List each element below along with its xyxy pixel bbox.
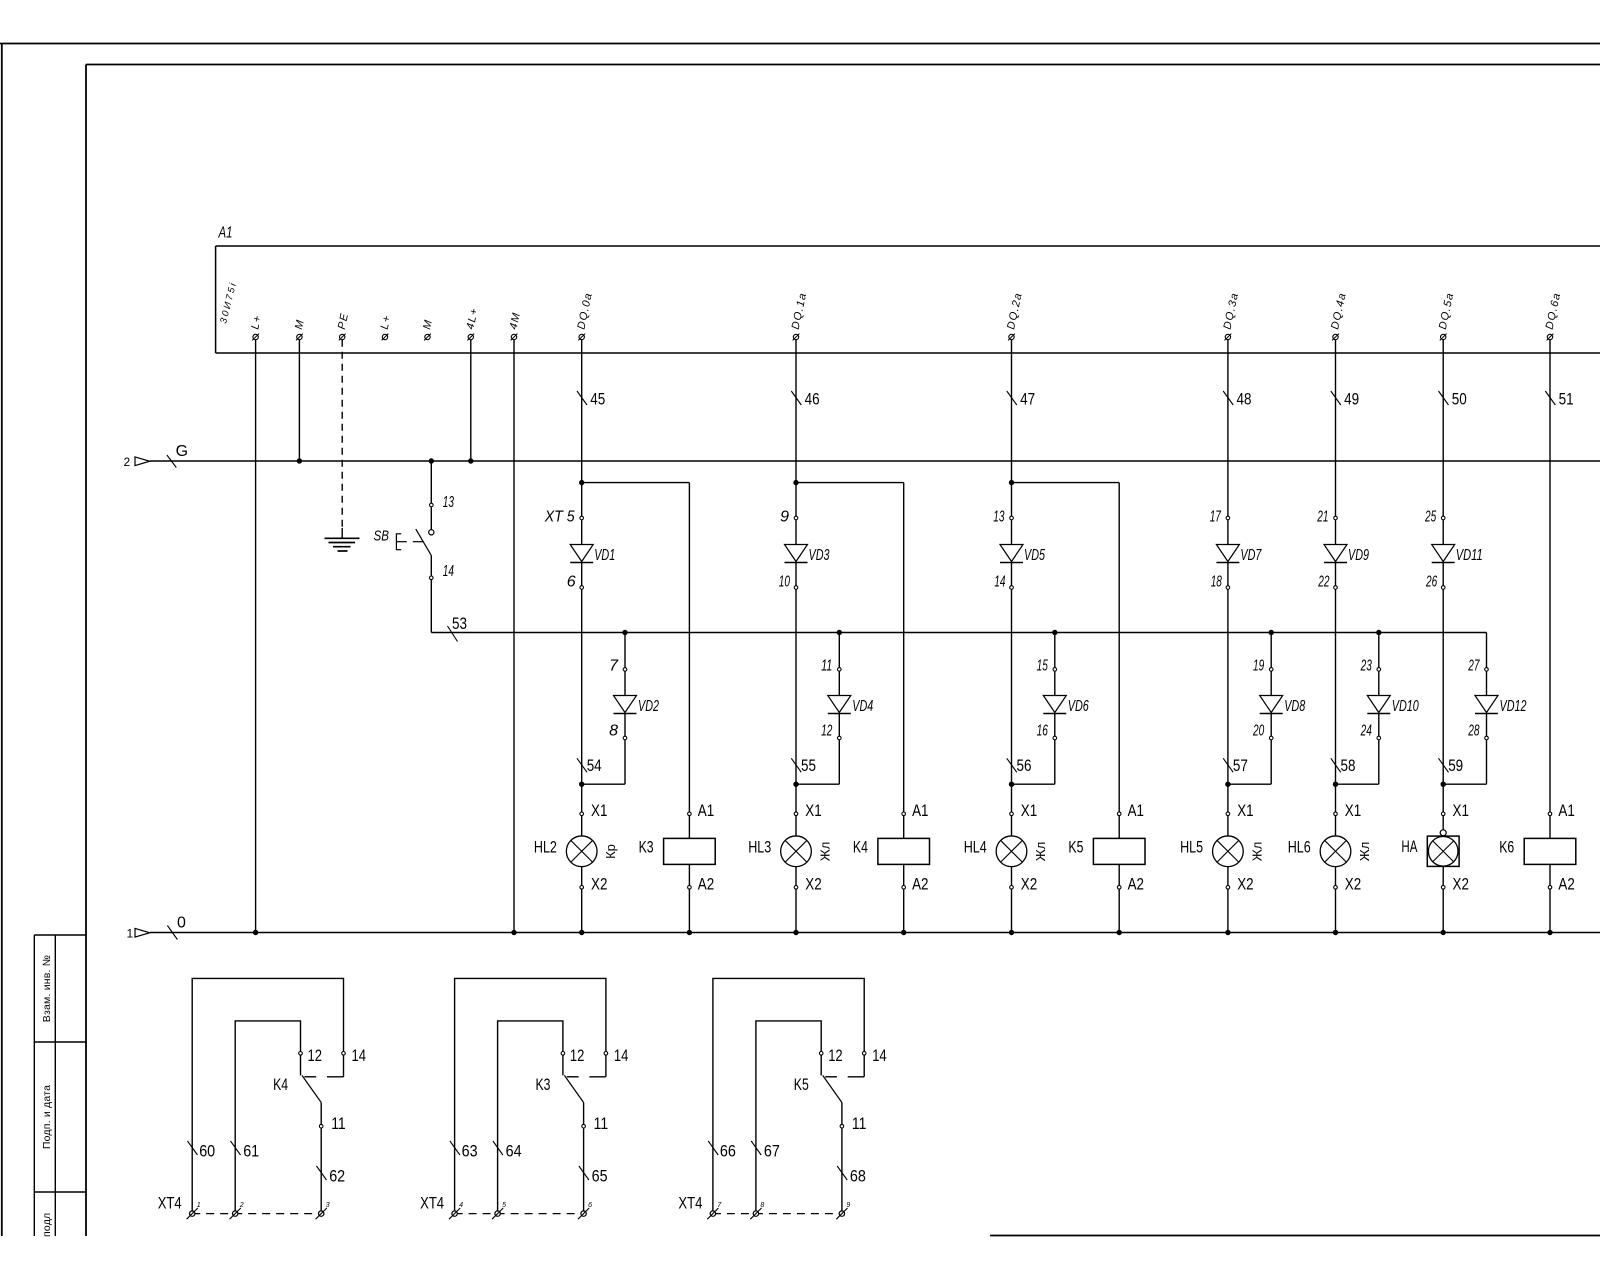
lamp color label [1357,842,1372,862]
svg-text:Жл: Жл [1033,842,1048,862]
svg-text:21: 21 [1317,509,1329,526]
wire 4L+ to bus G [468,340,473,464]
SB pin 14 [443,563,454,580]
svg-text:Жл: Жл [818,842,833,862]
svg-text:12: 12 [828,1046,843,1065]
stamp label Vzam inv [41,955,53,1022]
SB pin 13 [443,494,454,511]
contact pin 12 K5 [819,1046,842,1065]
svg-text:2: 2 [239,1202,244,1209]
svg-text:65: 65 [592,1167,608,1186]
wire number 61 [231,1141,260,1161]
svg-text:66: 66 [720,1142,736,1161]
wire M to bus G [297,340,302,464]
wire number 64 [493,1141,522,1161]
svg-text:подл: подл [41,1213,53,1237]
terminal DQ.6a x=1550.0 [1544,291,1564,340]
svg-text:XT4: XT4 [678,1193,702,1212]
wire DQ output drop ch4 [1227,340,1229,517]
XT4 terminal 5 [492,1202,506,1219]
SB label [374,528,390,545]
pin A2 K3 [688,875,715,894]
wire lamp to bus 0 ch4 [1225,889,1230,935]
wire 57 (diode to lamp) [1225,589,1230,812]
pin 22 [1318,574,1338,591]
terminal DQ.4a x=1335.5 [1329,291,1349,340]
wire 55 (diode to lamp) [793,589,798,812]
K6 label [1499,838,1514,857]
terminal strip XT4 dashed link [455,1213,584,1215]
wire lamp to bus 0 ch5 [1333,889,1338,935]
svg-text:45: 45 [590,390,605,409]
svg-text:A1: A1 [1558,801,1574,820]
A1 module type (rotated) [218,280,239,325]
svg-text:VD6: VD6 [1068,698,1089,715]
XT4 terminal 1 [187,1202,201,1219]
pin 18 [1211,574,1230,591]
svg-text:18: 18 [1211,574,1222,591]
bus 0 wire number [167,914,186,939]
module A1 box [216,246,1600,353]
relay coil K6 [1524,816,1576,886]
wire lamp to bus 0 ch3 [1009,889,1014,935]
svg-text:6: 6 [567,574,576,591]
diode VD7 [1216,520,1262,586]
HL3 label [748,838,771,857]
svg-text:X1: X1 [1021,801,1037,820]
bus G [135,461,1600,928]
svg-text:Кр: Кр [603,844,618,859]
svg-text:X1: X1 [1453,801,1469,820]
svg-text:15: 15 [1037,658,1048,675]
svg-text:A1: A1 [912,801,928,820]
wire DQ output drop ch1 [579,340,584,517]
svg-text:X2: X2 [1345,875,1361,894]
bus G off-sheet arrow [124,455,150,469]
terminal strip XT4 dashed link [713,1213,842,1215]
wire 68 common [841,1128,843,1211]
terminal DQ.3a x=1227.9 [1222,291,1242,340]
wire coil to bus 0 K3 [687,889,692,935]
pin A1 K3 [688,801,715,820]
svg-text:16: 16 [1037,723,1048,740]
bus G wire number [167,443,188,468]
wire number 68 [837,1166,866,1186]
XT4 terminal 3 [316,1202,330,1219]
svg-text:51: 51 [1559,390,1574,409]
lamp HL2 [566,816,597,886]
contact pin 11 K3 [582,1114,608,1133]
svg-text:X2: X2 [591,875,607,894]
svg-text:0: 0 [177,914,186,931]
svg-text:X2: X2 [1021,875,1037,894]
wire number 45 [577,390,605,409]
sounder HA [1427,816,1459,886]
svg-text:53: 53 [452,614,467,633]
terminal DQ.2a x=1011.5 [1005,291,1025,340]
svg-text:VD7: VD7 [1240,547,1262,564]
svg-text:67: 67 [764,1142,780,1161]
svg-text:50: 50 [1452,390,1467,409]
svg-text:HA: HA [1401,837,1417,856]
wire number 58 [1331,756,1356,775]
svg-text:A1: A1 [218,225,233,242]
lamp HL4 [996,816,1027,886]
pin X1 ch5 [1334,801,1362,820]
wire PE (dashed) [341,340,343,539]
pin A1 K5 [1117,801,1144,820]
wire DQ.6a to K6 [1549,340,1551,812]
svg-text:14: 14 [994,574,1005,591]
pin X1 ch4 [1226,801,1254,820]
changeover contact K3 [563,1055,606,1124]
svg-text:20: 20 [1252,723,1264,740]
svg-text:56: 56 [1017,756,1032,775]
wire number 62 [317,1166,346,1186]
wire number 54 [577,756,602,775]
svg-text:12: 12 [821,723,832,740]
pin X2 ch4 [1226,875,1254,894]
svg-text:11: 11 [821,658,832,675]
svg-text:A2: A2 [1558,875,1574,894]
lamp color label [603,844,618,859]
svg-text:A2: A2 [698,875,714,894]
wire number 46 [791,390,819,409]
K5 label [794,1075,809,1094]
svg-text:XT4: XT4 [420,1193,444,1212]
svg-text:VD3: VD3 [809,547,830,564]
svg-text:49: 49 [1344,390,1359,409]
svg-text:5: 5 [502,1202,506,1209]
wire branch to relay coil ch2 [796,483,904,812]
wire 65 common [583,1128,585,1211]
wire number 59 [1439,756,1464,775]
svg-text:61: 61 [243,1142,259,1161]
wire 4M to bus 0 [511,340,516,936]
svg-text:SB: SB [374,528,390,545]
wire number 66 [708,1141,736,1161]
pin A2 K6 [1548,875,1575,894]
wire lamp to bus 0 ch6 [1441,889,1446,935]
wire branch to relay coil ch1 [582,483,690,812]
terminal 4L+ x=470.8 [464,306,480,340]
test branch diode VD2 [582,630,659,784]
wire number 67 [751,1141,780,1161]
wire L+ to bus 0 [253,340,258,936]
svg-text:K5: K5 [1068,838,1083,857]
svg-text:A2: A2 [1128,875,1144,894]
pin A2 K4 [902,875,929,894]
svg-text:12: 12 [570,1046,585,1065]
contact pin 14 K4 [342,1046,366,1065]
svg-text:19: 19 [1253,658,1264,675]
wire number 51 [1545,390,1573,409]
svg-text:X1: X1 [805,801,821,820]
svg-text:VD9: VD9 [1348,547,1369,564]
svg-text:VD1: VD1 [594,547,615,564]
svg-text:17: 17 [1210,509,1222,526]
svg-text:1: 1 [127,926,134,940]
svg-text:VD2: VD2 [638,698,659,715]
pin 6 [567,574,584,591]
svg-text:Жл: Жл [1357,842,1372,862]
svg-text:54: 54 [587,756,602,775]
K3 label [536,1075,551,1094]
svg-text:26: 26 [1425,574,1437,591]
K4 label [853,838,868,857]
pin X2 ch5 [1334,875,1362,894]
svg-text:HL6: HL6 [1288,838,1311,857]
pin 26 [1425,574,1445,591]
XT4 terminal 4 [449,1202,463,1219]
svg-text:K3: K3 [536,1075,551,1094]
svg-text:2: 2 [124,455,131,469]
terminal PE x=342.2 [336,311,351,340]
svg-text:8: 8 [760,1202,764,1209]
svg-text:9: 9 [780,509,789,526]
svg-text:14: 14 [443,563,454,580]
svg-text:VD11: VD11 [1456,547,1483,564]
wire lamp to bus 0 ch2 [793,889,798,935]
test branch diode VD10 [1336,630,1419,784]
svg-text:VD4: VD4 [852,698,873,715]
contact pin 11 K5 [840,1114,866,1133]
HL2 label [534,838,557,857]
XT4 terminal 7 [707,1202,722,1219]
A1 label [218,225,233,242]
pin X2 ch1 [580,875,608,894]
svg-text:K5: K5 [794,1075,809,1094]
diode VD1 [570,520,615,586]
terminal 4M x=514.0 [508,311,523,341]
pin 21 [1317,509,1338,526]
svg-text:K3: K3 [639,838,654,857]
svg-text:X2: X2 [1237,875,1253,894]
wire number 60 [188,1141,216,1161]
pin A1 K4 [902,801,929,820]
svg-text:HL3: HL3 [748,838,771,857]
svg-text:14: 14 [614,1046,629,1065]
pin 25 [1424,509,1445,526]
svg-text:K4: K4 [273,1075,288,1094]
pin X2 ch6 [1441,875,1469,894]
terminal DQ.5a x=1443.2 [1437,291,1457,340]
terminal DQ.1a x=796.0 [790,291,810,340]
svg-text:48: 48 [1237,390,1252,409]
wire number 50 [1439,390,1467,409]
XT4 terminal 9 [836,1202,850,1219]
terminal M x=299.4 [293,318,307,340]
diode VD5 [1000,520,1045,586]
test branch diode VD8 [1228,630,1305,784]
svg-text:A1: A1 [1128,801,1144,820]
wire number 63 [450,1141,478,1161]
svg-text:63: 63 [462,1142,478,1161]
svg-text:11: 11 [594,1114,609,1133]
pin 17 [1210,509,1230,526]
bus 53 (lamp test) [431,632,1486,634]
wire number 47 [1007,390,1035,409]
wire lamp to bus 0 ch1 [579,889,584,935]
wire 62 common [320,1128,322,1211]
HA label [1401,837,1417,856]
contact pin 14 K3 [604,1046,628,1065]
XT4 terminal 6 [578,1202,592,1219]
pin X2 ch2 [794,875,822,894]
XT4 terminal 2 [230,1202,244,1219]
relay contact group K4 [192,978,343,1211]
svg-text:X2: X2 [805,875,821,894]
svg-text:VD8: VD8 [1284,698,1305,715]
svg-text:46: 46 [805,390,820,409]
svg-text:10: 10 [779,574,790,591]
contact pin 11 K4 [319,1114,345,1133]
terminal DQ.0a x=581.7 [575,291,595,340]
svg-text:14: 14 [352,1046,367,1065]
svg-text:6: 6 [588,1202,592,1209]
svg-text:57: 57 [1233,756,1248,775]
wire 56 (diode to lamp) [1009,589,1014,812]
wire 54 (diode to lamp) [579,589,584,812]
title block top line [990,1235,1600,1237]
pin X1 ch1 [580,801,608,820]
pin 10 [779,574,798,591]
diode VD9 [1324,520,1369,586]
title block side stamps [34,935,86,1236]
svg-text:Подп. и дата: Подп. и дата [41,1085,53,1149]
HL6 label [1288,838,1311,857]
lamp HL5 [1213,816,1244,886]
svg-text:47: 47 [1020,390,1035,409]
XT4 label group 1 [158,1193,182,1212]
ground [325,538,360,551]
lamp color label [1249,842,1264,862]
relay contact group K5 [713,978,864,1211]
svg-text:68: 68 [850,1167,866,1186]
svg-text:23: 23 [1360,658,1372,675]
svg-text:Взам. инв. №: Взам. инв. № [41,955,53,1022]
svg-text:X1: X1 [1237,801,1253,820]
wire branch to relay coil ch3 [1012,483,1120,812]
svg-text:X1: X1 [591,801,607,820]
svg-text:1: 1 [197,1202,201,1209]
wire K6 to bus 0 [1547,889,1552,935]
relay contact group K3 [455,978,606,1211]
wire number 49 [1331,390,1359,409]
svg-text:27: 27 [1468,658,1481,675]
bus 53 wire number [448,614,468,642]
svg-text:8: 8 [609,723,618,740]
svg-text:HL2: HL2 [534,838,557,857]
svg-text:13: 13 [993,509,1004,526]
svg-text:64: 64 [506,1142,522,1161]
svg-text:K4: K4 [853,838,868,857]
changeover contact K5 [821,1055,864,1124]
bus 0 [150,932,1600,934]
pin 13 [993,509,1013,526]
pin A1 K6 [1548,801,1575,820]
pin X1 ch2 [794,801,822,820]
svg-text:4: 4 [459,1202,463,1209]
HL5 label [1180,838,1203,857]
svg-text:12: 12 [308,1046,323,1065]
svg-text:VD12: VD12 [1500,698,1527,715]
pin 9 [780,509,798,526]
svg-text:G: G [176,443,188,460]
svg-text:60: 60 [199,1142,215,1161]
wire coil to bus 0 K5 [1117,889,1122,935]
lamp color label [1033,842,1048,862]
pin X2 ch3 [1010,875,1037,894]
lamp color label [818,842,833,862]
pushbutton SB [396,458,434,632]
svg-text:A2: A2 [912,875,928,894]
svg-text:59: 59 [1448,756,1463,775]
diode VD3 [785,520,830,586]
svg-text:22: 22 [1318,574,1330,591]
svg-text:X1: X1 [1345,801,1361,820]
wire DQ output drop ch2 [793,340,798,517]
wire number 55 [791,756,816,775]
diode VD11 [1432,520,1483,586]
stamp label Podp i data [41,1085,53,1149]
changeover contact K4 [301,1055,344,1124]
svg-text:7: 7 [609,658,619,675]
K5 label [1068,838,1083,857]
wire number 56 [1007,756,1032,775]
test branch diode VD6 [1012,630,1089,784]
lamp HL6 [1320,816,1351,886]
wire coil to bus 0 K4 [901,889,906,935]
svg-text:55: 55 [801,756,816,775]
svg-text:A1: A1 [698,801,714,820]
wire 58 (diode to lamp) [1333,589,1338,812]
wire DQ output drop ch6 [1442,340,1444,517]
svg-text:3: 3 [326,1202,330,1209]
wire DQ output drop ch5 [1335,340,1337,517]
relay coil K5 [1093,816,1145,886]
svg-text:58: 58 [1341,756,1356,775]
pin XT 5 [544,509,584,526]
XT4 label group 3 [678,1193,702,1212]
contact pin 12 K3 [561,1046,584,1065]
pin X1 ch3 [1010,801,1037,820]
lamp HL3 [781,816,812,886]
relay coil K3 [664,816,716,886]
svg-text:11: 11 [331,1114,346,1133]
svg-text:VD10: VD10 [1392,698,1419,715]
svg-text:11: 11 [852,1114,867,1133]
terminal M x=427.5 [421,318,435,340]
terminal strip XT4 dashed link [192,1213,321,1215]
XT4 label group 2 [420,1193,444,1212]
terminal L+ x=255.6 [249,314,264,341]
svg-text:VD5: VD5 [1024,547,1045,564]
svg-text:K6: K6 [1499,838,1514,857]
relay coil K4 [878,816,930,886]
svg-text:14: 14 [872,1046,887,1065]
wire 59 (diode to lamp) [1441,589,1446,812]
test branch diode VD4 [796,630,873,784]
svg-text:24: 24 [1360,723,1372,740]
pin 14 [994,574,1013,591]
svg-text:XT4: XT4 [158,1193,182,1212]
HL4 label [964,838,987,857]
stamp label Inv N podl [41,1213,53,1237]
K3 label [639,838,654,857]
contact pin 12 K4 [299,1046,322,1065]
svg-text:Жл: Жл [1249,842,1264,862]
